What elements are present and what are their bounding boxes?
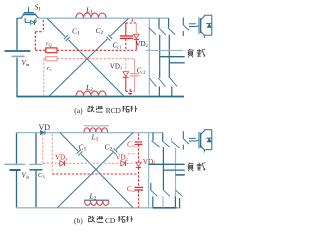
svg-text:VD: VD [39, 123, 51, 132]
svg-text:(b): (b) [74, 216, 83, 225]
svg-text:rc: rc [47, 65, 51, 72]
svg-text:rQ: rQ [46, 41, 52, 48]
svg-text:(a): (a) [74, 106, 83, 115]
svg-text:CD: CD [105, 216, 116, 225]
svg-text:RCD: RCD [106, 106, 122, 115]
